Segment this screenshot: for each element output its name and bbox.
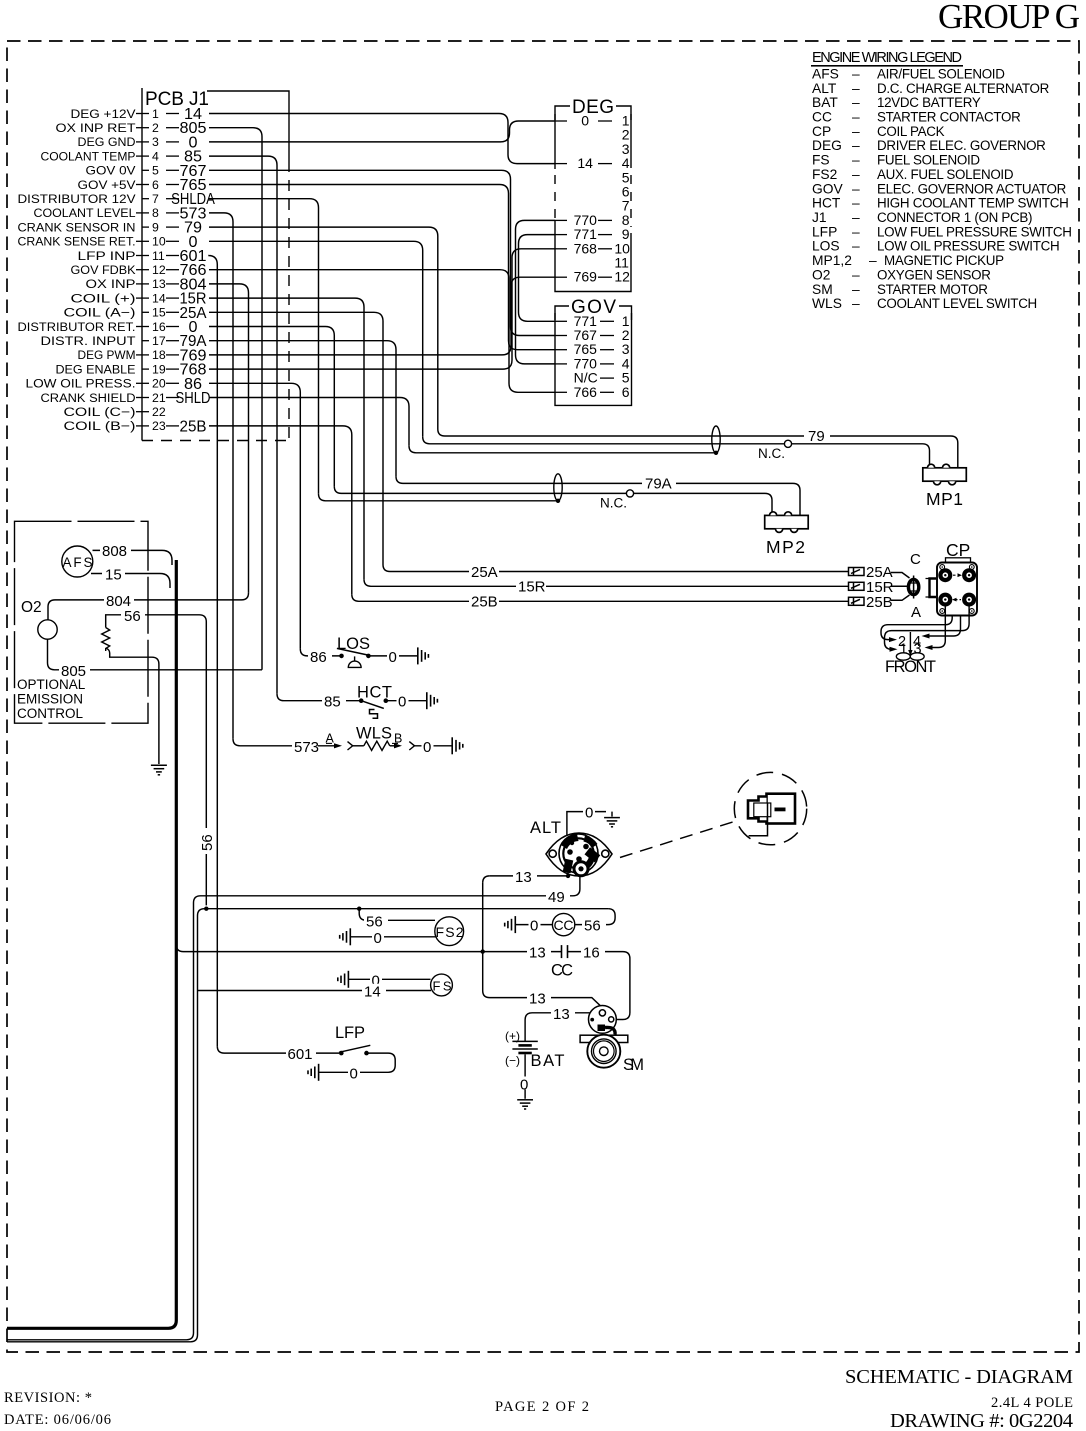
wire 15R J1-14 down — [209, 298, 364, 579]
svg-text:3: 3 — [914, 642, 922, 658]
svg-text:DEG GND: DEG GND — [78, 135, 136, 149]
svg-text:STARTER MOTOR: STARTER MOTOR — [877, 282, 988, 297]
ground CC coil — [505, 916, 516, 933]
svg-text:18: 18 — [152, 348, 166, 362]
dashed leader to connector detail — [620, 821, 736, 858]
svg-text:COIL (C−): COIL (C−) — [64, 405, 136, 419]
svg-text:85: 85 — [324, 694, 341, 711]
svg-text:SM: SM — [623, 1056, 644, 1074]
svg-text:0: 0 — [350, 1065, 358, 1082]
svg-text:16: 16 — [583, 945, 600, 962]
wire 79A J1-17 down — [209, 341, 396, 477]
J1 pin 6 tick — [136, 184, 149, 186]
svg-text:17: 17 — [152, 334, 166, 348]
svg-text:86: 86 — [310, 649, 327, 666]
svg-text:MP2: MP2 — [766, 537, 805, 557]
svg-text:SHLD: SHLD — [176, 390, 211, 407]
wire 15 from AFS to bundle — [91, 574, 170, 589]
wire label 79A — [642, 476, 676, 490]
svg-text:11: 11 — [152, 249, 165, 263]
svg-text:25B: 25B — [471, 594, 498, 611]
svg-text:AFS: AFS — [812, 67, 839, 82]
wire 56 rail — [7, 909, 608, 1342]
dashed circle connector detail — [734, 772, 806, 844]
wire label 56 rotated — [199, 828, 212, 854]
J1 pin 11 tick — [136, 255, 149, 257]
svg-text:–: – — [852, 153, 860, 168]
svg-text:CP: CP — [812, 124, 831, 139]
wire shield SHLDA to MP2 twisted pair — [319, 494, 559, 501]
magnetic pickup MP2 — [765, 512, 809, 533]
svg-text:C: C — [910, 551, 921, 568]
svg-text:MP1: MP1 — [926, 489, 963, 509]
svg-text:GOV FDBK: GOV FDBK — [71, 263, 137, 277]
coil pack firing order wires — [881, 606, 969, 649]
terminal 25A at coil pack — [849, 568, 865, 576]
svg-text:ELEC. GOVERNOR ACTUATOR: ELEC. GOVERNOR ACTUATOR — [877, 181, 1067, 196]
svg-text:STARTER CONTACTOR: STARTER CONTACTOR — [877, 110, 1021, 125]
wire 766 J1-12 to GOV-6 — [209, 270, 555, 393]
svg-text:CC: CC — [812, 110, 832, 125]
svg-text:AUX. FUEL SOLENOID: AUX. FUEL SOLENOID — [877, 167, 1014, 182]
svg-text:BAT: BAT — [531, 1052, 565, 1070]
svg-text:COIL PACK: COIL PACK — [877, 124, 945, 139]
svg-text:0: 0 — [398, 694, 406, 711]
ground ALT (earth) — [604, 818, 620, 827]
svg-text:5: 5 — [152, 164, 159, 178]
wire 13 branch from bundle — [176, 945, 561, 952]
ground FS2 — [340, 928, 351, 945]
svg-text:2.4L 4 POLE: 2.4L 4 POLE — [991, 1395, 1073, 1411]
solenoid FS — [431, 974, 453, 996]
svg-text:8: 8 — [152, 206, 159, 220]
svg-text:GOV: GOV — [812, 181, 843, 196]
J1 pin 23 tick — [136, 425, 149, 427]
svg-text:COIL (B−): COIL (B−) — [64, 419, 136, 433]
svg-text:D.C. CHARGE ALTERNATOR: D.C. CHARGE ALTERNATOR — [877, 81, 1050, 96]
J1 pin 7 tick — [142, 198, 149, 200]
wire 16 to SM solenoid — [568, 952, 630, 1020]
contact > — [409, 742, 414, 750]
J1 pin 9 tick — [142, 226, 149, 228]
contactor CC contacts — [562, 945, 568, 958]
svg-text:FRONT: FRONT — [885, 658, 936, 676]
svg-text:FS2: FS2 — [812, 167, 837, 182]
wire 56 from CC coil — [575, 909, 615, 925]
switch LOS — [300, 649, 341, 656]
wire 14 to FS — [198, 990, 432, 992]
propeller symbol — [896, 653, 924, 660]
svg-text:13: 13 — [529, 945, 546, 962]
J1 pin 17 tick — [142, 340, 149, 342]
svg-text:A: A — [911, 604, 921, 621]
svg-text:768: 768 — [574, 240, 598, 256]
svg-text:FS2: FS2 — [436, 924, 464, 940]
svg-text:ALT: ALT — [812, 81, 837, 96]
svg-text:14: 14 — [364, 984, 381, 1001]
svg-text:DEG ENABLE: DEG ENABLE — [56, 362, 136, 376]
wire label 79 — [804, 429, 830, 443]
svg-text:N.C.: N.C. — [600, 496, 627, 511]
connector GOV — [555, 306, 632, 405]
J1 pin 3 tick — [136, 141, 149, 143]
svg-text:12: 12 — [152, 263, 166, 277]
svg-text:13: 13 — [515, 869, 532, 886]
N.C. terminal circle MP2 — [626, 490, 633, 497]
svg-text:766: 766 — [574, 384, 598, 400]
svg-text:0: 0 — [530, 918, 538, 935]
svg-text:56: 56 — [584, 918, 601, 935]
wire 767 J1-5 to GOV-2 — [209, 170, 555, 335]
J1 pin 5 tick — [142, 169, 149, 171]
ground WLS — [452, 737, 463, 754]
svg-text:LOS: LOS — [337, 635, 370, 653]
svg-text:ALT: ALT — [530, 819, 561, 837]
J1 pin 8 tick — [136, 212, 149, 214]
wire 0 to FS — [348, 978, 430, 980]
wire 0 J1-10 down — [209, 241, 423, 436]
svg-text:15: 15 — [152, 306, 166, 320]
svg-text:14: 14 — [577, 155, 593, 171]
ground (earth) below box — [151, 765, 167, 775]
svg-text:CP: CP — [946, 540, 970, 560]
wire 805 J1-2 down — [209, 128, 262, 670]
svg-text:LOW OIL PRESS.: LOW OIL PRESS. — [26, 377, 136, 391]
terminal 15R at coil pack — [849, 582, 865, 590]
svg-text:MAGNETIC PICKUP: MAGNETIC PICKUP — [884, 253, 1004, 268]
wire resistor bottom to ground — [106, 648, 159, 764]
svg-text:14: 14 — [152, 291, 166, 305]
twisted pair loop symbol MP1 — [712, 426, 720, 453]
svg-text:25A: 25A — [471, 564, 498, 581]
wire 770 DEG-8 to GOV-4 — [516, 220, 556, 364]
svg-text:HIGH COOLANT TEMP SWITCH: HIGH COOLANT TEMP SWITCH — [877, 196, 1068, 211]
wire label 25B mid — [469, 595, 499, 608]
wire 765 J1-6 to GOV-3 — [209, 185, 555, 350]
legend: ENGINE WIRING LEGEND — [811, 50, 1072, 311]
wire SHLDA J1-7 down — [209, 199, 319, 494]
svg-text:20: 20 — [152, 377, 166, 391]
svg-text:O2: O2 — [812, 267, 830, 282]
connector J1 (PCB) — [142, 88, 289, 441]
shield SHLDA dashed enclosure around J1 — [288, 161, 290, 441]
svg-text:573: 573 — [294, 739, 319, 756]
svg-text:19: 19 — [152, 362, 166, 376]
svg-text:–: – — [852, 224, 860, 239]
svg-text:WLS: WLS — [356, 725, 392, 743]
svg-text:COOLANT TEMP: COOLANT TEMP — [41, 149, 136, 163]
svg-text:ENGINE WIRING LEGEND: ENGINE WIRING LEGEND — [812, 50, 962, 66]
thick harness bundle down the page — [7, 560, 176, 1328]
ground LOS — [418, 647, 429, 664]
firing order arrows and numbers — [889, 634, 933, 658]
svg-text:COIL (A−): COIL (A−) — [64, 306, 136, 320]
svg-text:16: 16 — [152, 320, 166, 334]
wire 0 return to MP2 — [334, 486, 626, 493]
svg-text:–: – — [852, 239, 860, 254]
svg-text:EMISSION: EMISSION — [17, 692, 83, 707]
J1 pin 2 tick — [136, 127, 149, 129]
svg-text:DRIVER ELEC. GOVERNOR: DRIVER ELEC. GOVERNOR — [877, 138, 1046, 153]
solenoid FS2 — [435, 917, 464, 946]
svg-text:LOW FUEL PRESSURE SWITCH: LOW FUEL PRESSURE SWITCH — [877, 224, 1072, 239]
wire shield to MP1 twisted pair — [409, 446, 716, 453]
svg-text:DISTRIBUTOR 12V: DISTRIBUTOR 12V — [18, 192, 137, 206]
wire 56 stub to FS2 — [359, 909, 435, 921]
wire 79A to MP2 — [396, 476, 800, 515]
wire 0 J1-3 to DEG-1 — [209, 121, 555, 142]
svg-text:OX INP RET: OX INP RET — [56, 121, 136, 135]
resistor zigzag — [364, 741, 390, 750]
svg-text:FUEL SOLENOID: FUEL SOLENOID — [877, 153, 980, 168]
svg-text:21: 21 — [152, 391, 166, 405]
J1 pin 19 tick — [142, 368, 149, 370]
capacitor tab symbol — [926, 579, 937, 598]
svg-text:CC: CC — [551, 962, 573, 980]
svg-text:25B: 25B — [866, 594, 893, 611]
svg-text:25B: 25B — [180, 418, 207, 435]
wire 804 J1-13 down — [209, 284, 249, 593]
svg-text:DISTR. INPUT: DISTR. INPUT — [41, 334, 136, 348]
svg-text:–: – — [852, 267, 860, 282]
svg-text:FS: FS — [433, 978, 452, 993]
svg-text:LFP: LFP — [812, 224, 837, 239]
svg-text:0: 0 — [581, 113, 589, 129]
wire 771 DEG-9 to GOV-1 — [519, 235, 556, 322]
J1 pin 13 tick — [136, 283, 149, 285]
wire 56 resistor top — [106, 615, 207, 906]
svg-text:13: 13 — [553, 1006, 570, 1023]
J1 pin 15 tick — [142, 311, 149, 313]
svg-text:1: 1 — [152, 107, 159, 121]
J1 pin 14 tick — [136, 297, 149, 299]
svg-text:–: – — [852, 110, 860, 125]
svg-text:DEG: DEG — [572, 97, 614, 118]
svg-text:0: 0 — [585, 804, 593, 821]
wire SHLD J1-21 down — [209, 398, 409, 446]
wire 601 J1-11 down — [208, 256, 217, 1047]
svg-text:808: 808 — [102, 543, 127, 560]
wire 768 J1-19 to DEG-10 — [209, 249, 555, 369]
svg-text:56: 56 — [199, 834, 216, 851]
svg-text:DEG: DEG — [812, 138, 842, 153]
wire 85 J1-4 down — [209, 156, 277, 694]
J1 pin 12 tick — [136, 269, 149, 271]
wire 0 to FS2 — [350, 936, 435, 938]
svg-text:2: 2 — [152, 121, 159, 135]
svg-text:601: 601 — [288, 1046, 313, 1063]
ground FS — [338, 971, 349, 988]
svg-text:6: 6 — [152, 178, 159, 192]
svg-text:9: 9 — [152, 220, 159, 234]
wire 49 ALT to left edge — [7, 876, 580, 1340]
wire 79 to MP1 — [438, 429, 958, 468]
wire 804 O2 to J1-13 — [48, 593, 249, 620]
wire label 15R mid — [516, 580, 546, 593]
svg-text:13: 13 — [529, 991, 546, 1008]
svg-text:–: – — [852, 138, 860, 153]
svg-text:N.C.: N.C. — [758, 446, 785, 461]
svg-text:–: – — [852, 124, 860, 139]
svg-text:MP1,2: MP1,2 — [812, 253, 852, 268]
svg-text:DISTRIBUTOR RET.: DISTRIBUTOR RET. — [18, 320, 136, 334]
switch HCT — [277, 694, 361, 701]
svg-text:CC: CC — [554, 917, 574, 933]
svg-text:HCT: HCT — [812, 196, 841, 211]
svg-text:805: 805 — [61, 663, 86, 680]
svg-text:DEG PWM: DEG PWM — [78, 348, 136, 362]
wire 13 to ALT — [490, 871, 568, 876]
J1 pin 16 tick — [136, 326, 149, 328]
svg-text:769: 769 — [574, 269, 598, 285]
svg-text:CONTROL: CONTROL — [17, 706, 83, 721]
ground LFP — [308, 1064, 319, 1081]
wire 14 J1-1 to DEG-4 — [209, 114, 555, 164]
wire 79 J1-9 down — [209, 227, 438, 429]
svg-text:13: 13 — [152, 277, 166, 291]
svg-text:–: – — [852, 210, 860, 225]
svg-text:DRAWING #: 0G2204: DRAWING #: 0G2204 — [890, 1410, 1073, 1431]
svg-text:GROUP G: GROUP G — [938, 0, 1080, 36]
starter motor SM — [589, 1006, 617, 1034]
wire 25B long — [352, 594, 849, 601]
svg-text:LOW OIL PRESSURE SWITCH: LOW OIL PRESSURE SWITCH — [877, 239, 1059, 254]
svg-text:CRANK SHIELD: CRANK SHIELD — [41, 391, 136, 405]
svg-text:CONNECTOR 1 (ON PCB): CONNECTOR 1 (ON PCB) — [877, 210, 1032, 225]
svg-text:49: 49 — [548, 889, 565, 906]
svg-text:O2: O2 — [21, 599, 42, 616]
svg-text:1: 1 — [900, 642, 908, 658]
svg-text:GOV +5V: GOV +5V — [78, 178, 137, 192]
arrow B — [390, 745, 396, 747]
ground BAT (earth) — [517, 1100, 533, 1109]
wire 0 J1-16 down — [209, 327, 334, 487]
J1 pin 10 tick — [136, 240, 149, 242]
svg-text:22: 22 — [152, 405, 166, 419]
J1 pin 1 tick — [136, 113, 149, 115]
svg-text:15R: 15R — [518, 579, 546, 596]
svg-text:12: 12 — [614, 269, 630, 285]
terminal 25B at coil pack — [849, 597, 865, 605]
svg-text:COIL (+): COIL (+) — [71, 291, 136, 305]
svg-text:PAGE 2 OF 2: PAGE 2 OF 2 — [495, 1399, 589, 1415]
svg-text:WLS: WLS — [812, 296, 842, 311]
solenoid AFS — [62, 546, 93, 577]
svg-text:LFP: LFP — [335, 1024, 365, 1042]
wire 13 BAT to SM — [525, 1013, 589, 1041]
svg-text:J1: J1 — [812, 210, 827, 225]
J1 pin 4 tick — [136, 155, 149, 157]
svg-text:–: – — [852, 81, 860, 96]
wire label 25A mid — [469, 565, 499, 578]
wire 808 from AFS to bundle — [93, 550, 173, 565]
svg-text:FS: FS — [812, 153, 830, 168]
svg-text:BAT: BAT — [812, 95, 838, 110]
resistor (O2 heater) — [102, 628, 110, 652]
ground HCT — [427, 692, 438, 709]
svg-text:23: 23 — [152, 419, 166, 433]
svg-text:–: – — [852, 181, 860, 196]
svg-text:COOLANT LEVEL SWITCH: COOLANT LEVEL SWITCH — [877, 296, 1037, 311]
svg-text:12VDC BATTERY: 12VDC BATTERY — [877, 95, 981, 110]
svg-text:SM: SM — [812, 282, 833, 297]
wire 13 vertical bus — [483, 876, 490, 883]
svg-text:56: 56 — [124, 608, 141, 625]
svg-text:0: 0 — [423, 739, 431, 756]
svg-text:–: – — [852, 67, 860, 82]
switch WLS — [233, 739, 318, 746]
svg-text:–: – — [852, 196, 860, 211]
wire 25B J1-23 down — [209, 426, 352, 594]
wire bus between J1 and DEG/GOV — [209, 114, 555, 393]
wire 0 return to MP1 — [423, 437, 785, 444]
svg-text:DATE: 06/06/06: DATE: 06/06/06 — [4, 1412, 111, 1428]
svg-text:0: 0 — [389, 649, 397, 666]
svg-text:–: – — [852, 95, 860, 110]
svg-text:(−): (−) — [505, 1054, 520, 1068]
svg-text:DEG +12V: DEG +12V — [71, 107, 137, 121]
box OPTIONAL EMISSION CONTROL — [15, 521, 149, 723]
svg-text:COOLANT LEVEL: COOLANT LEVEL — [34, 206, 136, 220]
svg-text:–: – — [852, 167, 860, 182]
twisted pair loop symbol MP2 — [554, 474, 562, 501]
svg-text:LFP INP: LFP INP — [78, 249, 136, 263]
svg-text:79A: 79A — [645, 476, 672, 493]
svg-text:4: 4 — [152, 149, 159, 163]
svg-text:56: 56 — [366, 913, 383, 930]
svg-text:CRANK SENSE RET.: CRANK SENSE RET. — [18, 235, 136, 249]
J1 pin 18 tick — [136, 354, 149, 356]
magnetic pickup MP1 — [923, 464, 967, 485]
J1 pin 20 tick — [136, 382, 149, 384]
J1 pin 21 tick — [136, 397, 149, 399]
svg-text:OXYGEN SENSOR: OXYGEN SENSOR — [877, 267, 991, 282]
svg-text:AFS: AFS — [63, 555, 93, 570]
wire 86 J1-20 down — [209, 383, 300, 649]
svg-text:REVISION: *: REVISION: * — [4, 1390, 92, 1406]
svg-text:CRANK SENSOR IN: CRANK SENSOR IN — [18, 220, 136, 234]
svg-text:–: – — [852, 282, 860, 297]
svg-text:15: 15 — [105, 567, 122, 584]
svg-text:–: – — [869, 253, 877, 268]
footer text — [4, 1366, 1073, 1431]
svg-text:0: 0 — [374, 930, 382, 947]
ALT body artwork — [546, 833, 612, 876]
wire 25A long — [383, 565, 849, 572]
arrow A — [318, 745, 336, 747]
svg-text:–: – — [852, 296, 860, 311]
svg-text:LOS: LOS — [812, 239, 840, 254]
contact > — [348, 742, 353, 750]
connector DEG — [555, 106, 631, 292]
wire 15R long — [364, 579, 849, 586]
N.C. terminal circle MP1 — [784, 440, 791, 447]
contactor coil CC — [552, 913, 574, 935]
svg-text:10: 10 — [152, 235, 166, 249]
svg-text:3: 3 — [152, 135, 159, 149]
wire 805 O2 bottom to J1-2 — [48, 639, 263, 670]
wire 25A J1-15 down — [209, 312, 383, 564]
svg-text:6: 6 — [622, 384, 630, 400]
rotor contact symbol — [891, 573, 919, 601]
wire 0 to CC coil — [515, 924, 552, 926]
svg-text:79: 79 — [808, 428, 825, 445]
J1 pin 22 tick — [136, 411, 149, 413]
svg-text:7: 7 — [152, 192, 159, 206]
svg-text:SCHEMATIC - DIAGRAM: SCHEMATIC - DIAGRAM — [845, 1366, 1073, 1388]
svg-text:0: 0 — [520, 1077, 528, 1094]
svg-text:AIR/FUEL SOLENOID: AIR/FUEL SOLENOID — [877, 67, 1005, 82]
